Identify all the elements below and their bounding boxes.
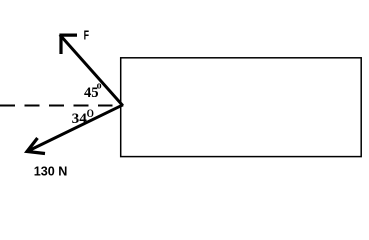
arrowhead of 130 N [27,138,45,154]
force vector F shaft [60,35,123,106]
svg-text:O: O [87,108,94,120]
box (block) [121,58,362,157]
arrowhead of F [61,35,77,54]
dashed horizontal reference line [0,105,113,107]
svg-text:F: F [84,29,90,43]
force vector 130 N shaft [27,105,123,152]
svg-text:o: o [97,80,102,91]
svg-text:34: 34 [72,110,88,127]
svg-text:130 N: 130 N [34,165,68,179]
